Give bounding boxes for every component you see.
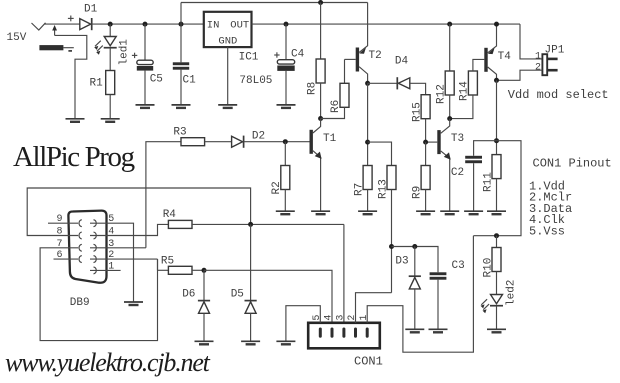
svg-text:R7: R7: [354, 183, 366, 196]
svg-text:led2: led2: [505, 280, 517, 306]
svg-text:R10: R10: [482, 258, 494, 278]
svg-text:C5: C5: [150, 74, 163, 86]
svg-text:IC1: IC1: [239, 52, 259, 64]
resistor R7: [363, 166, 372, 212]
ground T3 emitter: [440, 211, 459, 214]
svg-text:78L05: 78L05: [239, 75, 272, 87]
wire jack return staircase: [55, 35, 87, 118]
ground C4: [277, 105, 296, 108]
resistor R4: [168, 220, 344, 228]
connector JP1: [542, 54, 557, 75]
resistor R1: [106, 71, 115, 119]
wire rail to JP1 pin1: [520, 24, 542, 59]
node C1 tap: [179, 22, 184, 27]
wire IC1 OUT 5V rail: [252, 23, 521, 25]
wire Vdd to right and down: [473, 141, 521, 236]
pin 2 wire to R5: [90, 258, 158, 260]
wire to top rail: [180, 3, 182, 25]
node R8 R6 T1 junction: [318, 116, 323, 121]
svg-text:R5: R5: [161, 256, 174, 268]
ground led2: [487, 329, 506, 332]
svg-text:2: 2: [347, 315, 358, 321]
svg-text:T4: T4: [498, 51, 512, 63]
svg-text:5: 5: [108, 214, 114, 225]
svg-text:T1: T1: [323, 133, 337, 145]
svg-text:4: 4: [324, 315, 335, 321]
ground R11: [487, 211, 506, 214]
svg-text:D3: D3: [395, 256, 408, 268]
resistor R9: [421, 142, 430, 211]
wire top rail: [181, 2, 368, 4]
node R8 top: [318, 0, 323, 5]
ground C5: [136, 105, 155, 108]
pin 9 stub: [48, 222, 78, 224]
node T2 collector D4 junction: [365, 81, 370, 86]
svg-text:R9: R9: [412, 186, 424, 199]
node C4 tap: [284, 22, 289, 27]
svg-text:AllPic Prog: AllPic Prog: [13, 141, 135, 173]
svg-text:7: 7: [57, 239, 63, 250]
ground C2: [464, 211, 483, 214]
wire data to CON1 pin3: [343, 224, 345, 322]
wire R5 jog down: [157, 259, 159, 270]
node data net D5 junction: [248, 222, 253, 227]
capacitor C5: [132, 24, 153, 105]
svg-text:T3: T3: [451, 133, 464, 145]
node T3 collector junction: [447, 116, 452, 121]
svg-text:D2: D2: [252, 131, 265, 143]
svg-text:R6: R6: [330, 100, 342, 113]
pin 6 stub: [54, 258, 79, 260]
svg-text:T2: T2: [369, 50, 382, 62]
svg-text:R12: R12: [436, 84, 448, 104]
node R12 tap: [447, 22, 452, 27]
ground CON1 pin5: [276, 341, 295, 344]
ground R9: [416, 211, 435, 214]
svg-text:C3: C3: [452, 260, 465, 272]
resistor R13: [387, 166, 396, 293]
svg-text:C4: C4: [291, 49, 305, 61]
ground C3: [429, 329, 448, 332]
DB9 pin arcs left: [79, 220, 82, 263]
transistor T1: [310, 119, 322, 212]
capacitor C3: [430, 272, 447, 329]
svg-text:R2: R2: [271, 181, 283, 194]
svg-text:R4: R4: [163, 209, 177, 221]
diode D5: [245, 224, 257, 341]
CON1 pin stubs: [320, 329, 367, 336]
pin 5 wire to ground: [90, 223, 134, 302]
wire R3 net left: [146, 142, 181, 248]
svg-text:9: 9: [57, 214, 63, 225]
svg-text:OUT: OUT: [230, 20, 249, 32]
svg-text:1: 1: [108, 261, 114, 272]
node C2 R11 junction: [494, 138, 499, 143]
svg-text:R3: R3: [173, 127, 186, 139]
ground C1: [172, 105, 191, 108]
svg-text:2: 2: [108, 250, 114, 261]
resistor R6: [321, 59, 349, 118]
diode D2: [232, 136, 310, 148]
resistor R12: [445, 24, 454, 119]
svg-text:4: 4: [108, 227, 114, 238]
node led1 tap: [108, 22, 113, 27]
svg-text:R13: R13: [378, 179, 390, 199]
pin 1 stub: [90, 269, 121, 271]
svg-text:IN: IN: [207, 20, 220, 32]
wire CON1 pin1 Vdd loop: [367, 236, 473, 353]
node T4 emitter rail tap: [494, 22, 499, 27]
transistor T3: [426, 119, 451, 212]
ground T1 emitter: [311, 211, 330, 214]
transistor T4: [484, 24, 496, 80]
svg-text:3: 3: [108, 239, 114, 250]
svg-text:C2: C2: [451, 167, 464, 179]
node R7 R13 junction: [365, 140, 370, 145]
connector DB9 outline: [68, 211, 106, 283]
op-amp U1 regulator IC1 box: [204, 12, 252, 48]
wire JP1 pin2 to T4 collector: [497, 70, 543, 80]
wire jack to D1: [44, 23, 80, 25]
svg-text:R15: R15: [412, 102, 424, 122]
resistor R11: [492, 155, 501, 212]
resistor R15: [421, 95, 430, 142]
wire T2 collector to R7: [367, 83, 369, 165]
svg-text:R14: R14: [459, 81, 471, 101]
svg-text:1: 1: [359, 315, 370, 321]
wire D1 to IC1 IN: [92, 23, 204, 25]
svg-text:D5: D5: [231, 289, 244, 301]
capacitor C2: [465, 141, 496, 212]
wire to R13 top: [368, 142, 392, 165]
wire D3 C3 net: [392, 247, 439, 273]
svg-text:D4: D4: [395, 56, 409, 68]
ground DB9 pin5: [124, 302, 143, 305]
node C5 tap: [143, 22, 148, 27]
resistor R8: [316, 3, 325, 119]
DB9 pin arcs right: [94, 220, 97, 274]
svg-text:6: 6: [57, 250, 63, 261]
svg-text:DB9: DB9: [70, 297, 90, 309]
diode D1: [80, 18, 92, 30]
node T1 base R2 junction: [283, 139, 288, 144]
svg-text:3: 3: [336, 315, 347, 321]
node R15 R9 T3 base junction: [423, 140, 428, 145]
svg-text:D1: D1: [84, 4, 98, 16]
connector CON1 box: [308, 323, 380, 349]
wire Vdd down: [496, 80, 498, 154]
svg-text:D6: D6: [182, 289, 195, 301]
ground R1: [101, 119, 120, 122]
transistor T2: [345, 3, 368, 84]
svg-text:R1: R1: [90, 78, 104, 90]
svg-text:5.Vss: 5.Vss: [529, 224, 565, 238]
capacitor C1: [173, 24, 189, 105]
label + at D1 anode: [68, 16, 74, 22]
svg-text:R8: R8: [307, 82, 319, 95]
node T4 collector junction: [494, 78, 499, 83]
diode D6: [198, 270, 210, 341]
node clk net D6 junction: [202, 268, 207, 273]
ground D5: [241, 341, 260, 344]
svg-text:GND: GND: [218, 36, 237, 48]
node R10 tap: [494, 233, 499, 238]
svg-text:C1: C1: [183, 75, 197, 87]
resistor R14: [450, 59, 485, 118]
ground D6: [195, 341, 214, 344]
svg-text:R11: R11: [482, 172, 494, 192]
node D3 top: [412, 244, 417, 249]
resistor R2: [281, 142, 290, 212]
svg-text:JP1: JP1: [545, 45, 565, 57]
pin 4 wire to R4: [90, 224, 168, 235]
svg-text:CON1: CON1: [354, 355, 383, 369]
svg-text:Vdd mod select: Vdd mod select: [508, 88, 609, 102]
pin 3 wire to R3: [90, 247, 146, 249]
capacitor C4: [274, 24, 294, 105]
wire clk to CON1 pin4: [204, 270, 332, 323]
svg-text:1: 1: [535, 51, 541, 62]
svg-text:www.yuelektro.cjb.net: www.yuelektro.cjb.net: [5, 348, 211, 377]
wire R13 to CON1 pin2: [356, 293, 392, 323]
ground R7: [358, 211, 377, 214]
diode D3: [409, 247, 421, 330]
wire CON1 pin5 to ground: [286, 306, 320, 342]
svg-text:8: 8: [57, 227, 63, 238]
node D3 net junction: [389, 244, 394, 249]
svg-text:15V: 15V: [7, 32, 27, 44]
svg-text:5: 5: [312, 315, 323, 321]
ground R2: [276, 211, 295, 214]
pin 7 wire to bottom loop: [40, 248, 157, 341]
resistor R10: [492, 236, 501, 295]
diode D4: [368, 77, 426, 95]
svg-text:CON1 Pinout: CON1 Pinout: [533, 157, 612, 171]
ground jack return: [66, 119, 85, 122]
ground D3: [405, 329, 424, 332]
pin 8 wire to data net: [27, 188, 250, 236]
svg-text:led1: led1: [118, 39, 130, 66]
LED led2: [481, 295, 504, 330]
resistor R5: [158, 266, 205, 274]
svg-text:2: 2: [535, 63, 541, 74]
ground IC1: [218, 105, 237, 108]
resistor R3: [181, 138, 232, 146]
wire IC1 GND: [227, 47, 229, 105]
power jack X1: [32, 23, 74, 51]
LED led1: [94, 24, 117, 70]
